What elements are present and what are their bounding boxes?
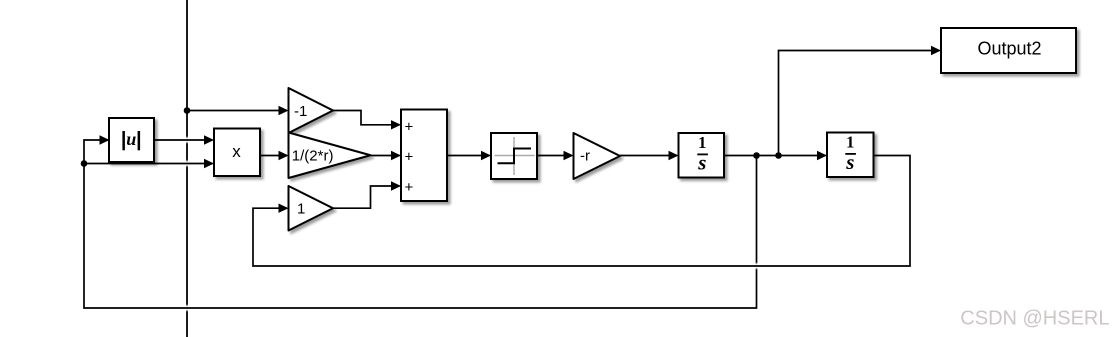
wire: abs output to product in1	[154, 135, 214, 144]
integrator U2 1/s	[827, 133, 874, 178]
svg-text:1: 1	[297, 201, 305, 218]
wire: sum output to relay input	[447, 151, 491, 160]
svg-text:s: s	[697, 150, 706, 174]
watermark CSDN @HSERL	[960, 308, 1109, 330]
node B: junction after integrator1 (feedback tap)	[753, 152, 760, 159]
wire: feedback from integrator2 to gain 1 input	[253, 156, 910, 267]
wire: integrator1 output to integrator2 input	[724, 151, 827, 160]
gain G3 value 1	[289, 186, 334, 231]
svg-text:+: +	[405, 119, 414, 136]
node A: junction on left vertical at y=163.5	[81, 160, 88, 167]
wire crossing halo at (187,140)	[184, 137, 190, 143]
wire: node D up and right to Output2	[779, 46, 942, 156]
wire: feedback from node B down y=308 left and up into abs input	[84, 135, 757, 308]
svg-text:-r: -r	[580, 148, 590, 165]
wire: gain -1 output to sum in1	[333, 111, 401, 130]
svg-text:1: 1	[846, 132, 854, 151]
gain G4 value -r	[574, 133, 621, 179]
wire crossing halo at (756.5,266)	[754, 263, 760, 269]
svg-text:s: s	[845, 150, 854, 174]
svg-text:-1: -1	[294, 103, 307, 120]
svg-text:1/(2*r): 1/(2*r)	[292, 148, 334, 165]
wire: gain 1/(2*r) output to sum in2	[371, 151, 402, 160]
node C: junction on boundary line feeding gain -1	[184, 107, 191, 114]
gain G1 value -1	[289, 88, 334, 133]
abs block |u|	[109, 118, 154, 162]
wire: gain -r output to integrator1 input	[620, 151, 679, 160]
product block x	[214, 129, 260, 177]
wire: branch from node A to product in2	[84, 159, 214, 168]
svg-text:x: x	[232, 142, 241, 161]
wire crossing halo at (187,163.5)	[184, 161, 190, 167]
svg-text:Output2: Output2	[977, 39, 1041, 59]
relay block (sign function)	[491, 133, 537, 179]
svg-text:+: +	[405, 148, 414, 165]
wire: relay output to gain -r input	[537, 151, 574, 160]
sum pin labels + + +	[405, 119, 414, 196]
wire: node C to gain -1 input	[187, 106, 289, 115]
gain G2 value 1/(2*r)	[289, 133, 371, 179]
wire: gain 1 output to sum in3	[333, 181, 401, 208]
outport block Output2	[941, 28, 1076, 73]
integrator U1 1/s	[679, 133, 725, 178]
node D: junction feeding Output2	[775, 152, 782, 159]
wire: product output to gain 1/(2*r) input	[260, 151, 289, 160]
svg-text:1: 1	[698, 133, 706, 152]
wire: long vertical boundary line x=187	[186, 0, 188, 337]
sum block S1	[401, 110, 447, 202]
svg-text:u: u	[126, 129, 136, 149]
svg-text:+: +	[405, 179, 414, 196]
wire crossing halo at (187,308)	[184, 305, 190, 311]
svg-text:CSDN @HSERL: CSDN @HSERL	[960, 308, 1109, 330]
